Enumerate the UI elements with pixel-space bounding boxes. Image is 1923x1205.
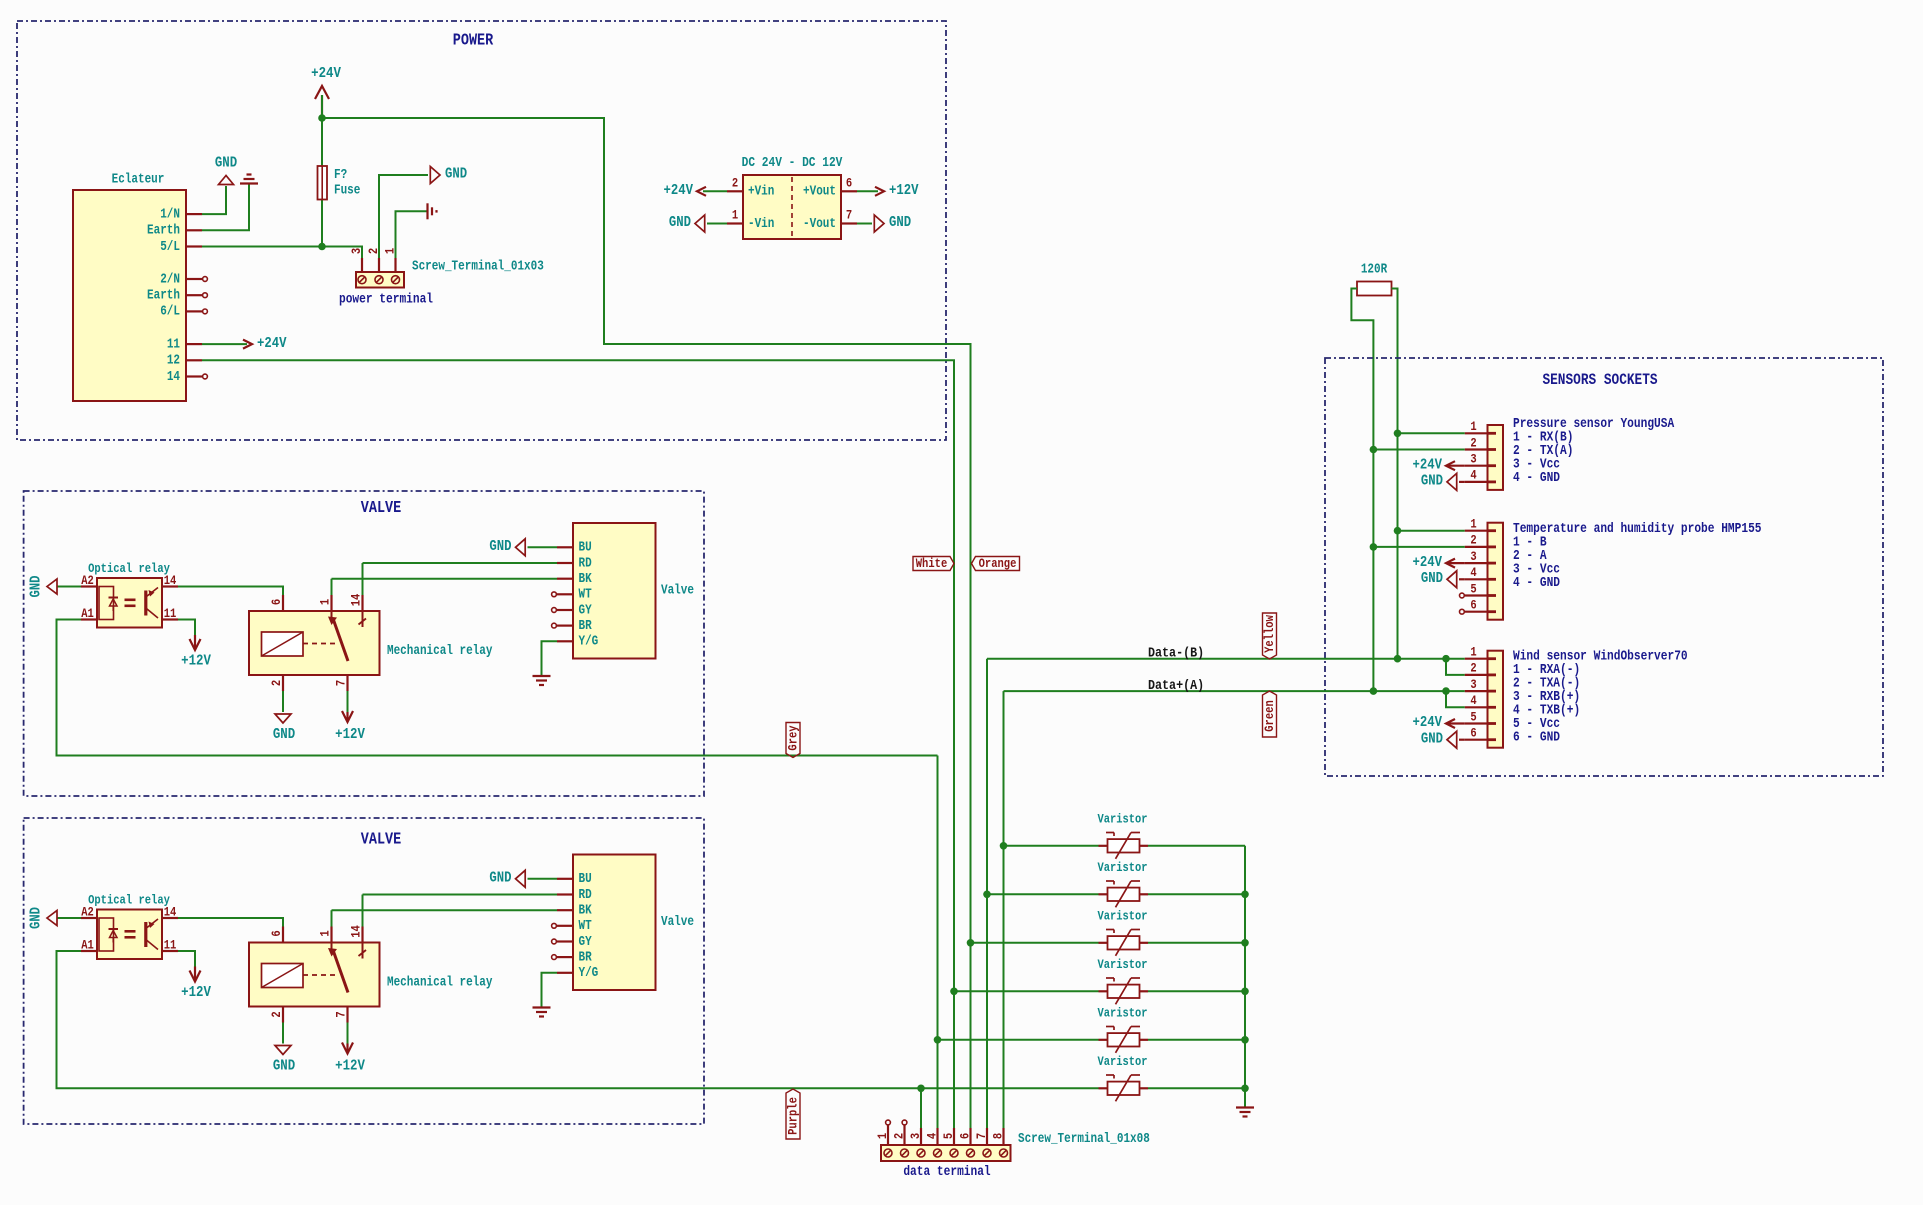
svg-text:6: 6 xyxy=(269,930,284,936)
IC U1 Eclateur xyxy=(73,190,186,401)
flag label Green xyxy=(1263,691,1277,737)
wire relay pin1 to valve BK xyxy=(332,909,558,911)
svg-text:+12V: +12V xyxy=(181,984,211,1001)
svg-text:6 - GND: 6 - GND xyxy=(1513,730,1560,745)
svg-text:+24V: +24V xyxy=(311,65,341,82)
wire varistor 3 right xyxy=(1148,942,1245,944)
screw 2 of data terminal xyxy=(901,1149,909,1157)
GND global label at -Vout xyxy=(857,223,872,225)
junction Purple wire to terminal pin 3 xyxy=(917,1085,925,1093)
svg-text:+24V: +24V xyxy=(1412,715,1442,731)
flag label Yellow xyxy=(1263,613,1277,659)
svg-text:6/L: 6/L xyxy=(160,304,180,319)
svg-text:2: 2 xyxy=(1470,533,1476,548)
svg-text:Earth: Earth xyxy=(147,223,180,238)
svg-text:GND: GND xyxy=(489,871,511,887)
wire line A to HMP pin 2 xyxy=(1373,546,1464,548)
wire Grey drop to terminal pin 4 xyxy=(937,756,939,1148)
VALVE section box xyxy=(24,818,704,1124)
pin 6 stub xyxy=(1465,739,1488,741)
svg-text:White: White xyxy=(916,556,947,571)
opto coupling marks xyxy=(125,598,136,601)
junction varistor 4 left xyxy=(950,988,958,996)
svg-text:+Vout: +Vout xyxy=(803,184,836,199)
unconnected valve pins WT GY BR xyxy=(552,923,557,928)
svg-text:data terminal: data terminal xyxy=(903,1164,990,1179)
valve pin BU xyxy=(557,546,573,548)
pin 4 stub xyxy=(1465,706,1488,708)
relay contact 14 xyxy=(362,611,364,627)
pin 3 stub xyxy=(1465,465,1488,467)
svg-text:GND: GND xyxy=(215,154,237,171)
svg-text:1: 1 xyxy=(1470,419,1476,434)
valve pin RD xyxy=(557,893,573,895)
svg-text:+24V: +24V xyxy=(663,183,693,199)
+24V global label at pin 11 xyxy=(202,343,247,345)
opto phototransistor xyxy=(144,922,147,947)
wire Data+(A) to wind pin 3 xyxy=(1004,690,1465,692)
pin 1 stub xyxy=(1465,530,1488,532)
svg-text:Fuse: Fuse xyxy=(334,182,360,197)
wire relay pin14 to valve RD xyxy=(363,562,558,564)
junction at +24V rail xyxy=(318,114,326,122)
opto coupling marks xyxy=(125,930,136,933)
wire 5/L to power terminal pin 3 xyxy=(202,247,362,259)
VALVE section box xyxy=(24,491,704,796)
wire Data-(B) drop to terminal pin 7 xyxy=(986,659,988,1148)
flag label Orange xyxy=(972,557,1020,571)
wire pin 12 to White drop xyxy=(202,360,954,1147)
relay coil xyxy=(262,632,304,656)
svg-text:+12V: +12V xyxy=(335,726,365,743)
pin 1/N of Eclateur xyxy=(186,213,202,215)
svg-text:2: 2 xyxy=(732,175,738,190)
svg-text:RD: RD xyxy=(579,555,592,570)
pin 4 stub xyxy=(1465,578,1488,580)
connector J? Pressure sensor xyxy=(1488,425,1504,490)
svg-text:14: 14 xyxy=(348,925,363,938)
pin 2 stub xyxy=(1465,546,1488,548)
wire +24V rail to Orange drop xyxy=(322,118,971,1148)
pin 12 of Eclateur xyxy=(186,359,202,361)
svg-text:1: 1 xyxy=(317,930,332,936)
svg-text:2: 2 xyxy=(1470,661,1476,676)
svg-text:4 - GND: 4 - GND xyxy=(1513,470,1560,485)
SENSORS SOCKETS section box xyxy=(1325,358,1883,776)
svg-text:4: 4 xyxy=(1470,565,1476,580)
valve pin BR xyxy=(557,956,573,958)
wire opto14 to relay pin6 xyxy=(178,587,283,596)
relay pin 2 xyxy=(282,675,284,691)
svg-text:6: 6 xyxy=(846,175,852,190)
svg-text:5: 5 xyxy=(1470,581,1476,596)
pin 6/L of Eclateur xyxy=(186,310,202,312)
svg-text:4: 4 xyxy=(1470,693,1476,708)
screw terminal J? data terminal xyxy=(881,1145,1011,1161)
pin 5 stub xyxy=(1465,722,1488,724)
pin Earth of Eclateur xyxy=(186,229,202,231)
power symbol GND below relay xyxy=(275,1046,291,1055)
svg-text:WT: WT xyxy=(579,587,592,602)
svg-text:3: 3 xyxy=(349,248,364,254)
svg-text:8: 8 xyxy=(990,1133,1005,1139)
svg-text:3: 3 xyxy=(1470,677,1476,692)
svg-text:7: 7 xyxy=(974,1133,989,1139)
pin 6 stub xyxy=(1465,611,1488,613)
wire relay pin 7 to +12V xyxy=(347,691,349,712)
svg-text:Grey: Grey xyxy=(785,725,800,750)
+24V global label pressure pin 3 xyxy=(1448,465,1465,467)
svg-text:14: 14 xyxy=(348,594,363,607)
wire opto pin 11 to +12V xyxy=(178,620,195,636)
relay K? Mechanical relay xyxy=(249,611,380,675)
svg-text:Valve: Valve xyxy=(661,582,694,597)
global label GND at valve BU xyxy=(528,546,558,548)
svg-text:A2: A2 xyxy=(81,573,94,588)
opto LED symbol xyxy=(99,918,114,951)
svg-text:GY: GY xyxy=(579,602,593,617)
svg-text:6: 6 xyxy=(957,1133,972,1139)
junction at fuse bottom / 5L xyxy=(318,243,326,251)
svg-text:BU: BU xyxy=(579,540,592,555)
pin 2 stub xyxy=(1465,448,1488,450)
wire 120R left lead to line A xyxy=(1351,289,1373,692)
svg-text:Green: Green xyxy=(1262,700,1277,731)
svg-text:14: 14 xyxy=(164,905,177,920)
valve pin Y/G xyxy=(557,640,573,642)
earth symbol below valve xyxy=(533,675,551,677)
wire opto pin 11 to +12V xyxy=(178,951,195,967)
svg-text:A1: A1 xyxy=(81,938,94,953)
svg-text:VALVE: VALVE xyxy=(361,498,401,518)
relay contact 14 xyxy=(362,943,364,959)
global label GND at opto A2 xyxy=(57,917,81,919)
power symbol GND (triangle) xyxy=(219,176,234,185)
relay dashed link xyxy=(303,974,339,976)
svg-text:BK: BK xyxy=(579,571,593,586)
global label GND near power terminal xyxy=(430,167,440,184)
svg-text:GND: GND xyxy=(273,1057,295,1074)
screw 1 of data terminal xyxy=(884,1149,892,1157)
screw 4 of data terminal xyxy=(934,1149,942,1157)
svg-text:Purple: Purple xyxy=(785,1097,800,1135)
+12V global label at +Vout xyxy=(857,190,878,192)
GND global label HMP pin 4 xyxy=(1459,578,1465,580)
svg-text:7: 7 xyxy=(333,1011,348,1017)
svg-text:1: 1 xyxy=(317,599,332,605)
junction varistor 2 right xyxy=(1241,891,1249,899)
wire power terminal pin 1 to small earth xyxy=(396,211,428,258)
svg-text:3: 3 xyxy=(908,1133,923,1139)
pin 1 stub xyxy=(1465,658,1488,660)
svg-text:VALVE: VALVE xyxy=(361,829,401,849)
svg-text:BK: BK xyxy=(579,903,593,918)
optocoupler Optical relay xyxy=(97,910,162,960)
opto pin A1 xyxy=(81,618,97,620)
GND global label at -Vin xyxy=(707,223,727,225)
valve pin GY xyxy=(557,940,573,942)
opto pin 14 xyxy=(162,917,178,919)
connector J? HMP155 probe xyxy=(1488,523,1504,620)
svg-text:power terminal: power terminal xyxy=(339,291,433,306)
svg-text:2: 2 xyxy=(891,1133,906,1139)
wire +24V rail down through fuse xyxy=(321,95,323,247)
svg-text:-Vout: -Vout xyxy=(803,216,836,231)
relay pin 1 xyxy=(330,927,332,943)
svg-text:Screw_Terminal_01x03: Screw_Terminal_01x03 xyxy=(412,258,544,273)
wire varistor 6 right xyxy=(1148,1087,1245,1089)
relay switch arm xyxy=(331,943,333,952)
wire varistor 5 left xyxy=(938,1039,1099,1041)
svg-text:14: 14 xyxy=(167,369,180,384)
wire line B to pressure pin 1 xyxy=(1398,432,1465,434)
power symbol +24V xyxy=(321,95,323,118)
svg-text:-Vin: -Vin xyxy=(748,216,774,231)
unconnected data terminal pins 1 2 xyxy=(886,1120,891,1125)
wire varistor 4 right xyxy=(1148,990,1245,992)
svg-text:BR: BR xyxy=(579,618,593,633)
relay K? Mechanical relay xyxy=(249,943,380,1007)
pin 4 stub xyxy=(1465,481,1488,483)
svg-text:GND: GND xyxy=(889,215,911,231)
svg-text:GND: GND xyxy=(489,539,511,555)
wire power terminal pin 2 to GND label xyxy=(379,175,428,258)
svg-text:2: 2 xyxy=(269,1011,284,1017)
wire varistor 2 right xyxy=(1148,893,1245,895)
opto pin 11 xyxy=(162,618,178,620)
svg-text:+Vin: +Vin xyxy=(748,184,774,199)
valve pin BK xyxy=(557,909,573,911)
pin 2/N of Eclateur xyxy=(186,278,202,280)
wire Purple drop to terminal pin 3 xyxy=(920,1088,922,1147)
flag label Purple xyxy=(786,1089,800,1139)
relay pin 6 xyxy=(282,595,284,611)
power symbol +12V down xyxy=(194,635,196,648)
svg-text:6: 6 xyxy=(1470,726,1476,741)
flag label Grey xyxy=(786,723,800,758)
svg-text:BU: BU xyxy=(579,871,592,886)
junction varistor 5 left xyxy=(934,1036,942,1044)
svg-text:Varistor: Varistor xyxy=(1098,958,1148,972)
varistor common ground rail xyxy=(1244,846,1246,1108)
svg-text:4 - GND: 4 - GND xyxy=(1513,575,1560,590)
earth symbol below valve xyxy=(533,1006,551,1008)
svg-text:WT: WT xyxy=(579,918,592,933)
wire varistor 4 left xyxy=(954,990,1099,992)
valve pin BU xyxy=(557,878,573,880)
wire wind pin 2 loop xyxy=(1446,659,1465,675)
svg-text:Earth: Earth xyxy=(147,288,180,303)
svg-text:2: 2 xyxy=(269,680,284,686)
svg-text:5: 5 xyxy=(1470,709,1476,724)
svg-text:120R: 120R xyxy=(1361,261,1388,276)
svg-text:GND: GND xyxy=(445,167,467,183)
svg-text:5: 5 xyxy=(941,1133,956,1139)
svg-text:Varistor: Varistor xyxy=(1098,861,1148,875)
svg-text:+12V: +12V xyxy=(889,183,919,199)
svg-text:1: 1 xyxy=(875,1133,890,1139)
svg-text:4: 4 xyxy=(1470,468,1476,483)
svg-text:1/N: 1/N xyxy=(160,206,180,221)
wire valve Y/G to earth xyxy=(542,641,558,676)
screw terminal J? power terminal xyxy=(356,272,404,288)
svg-text:GND: GND xyxy=(29,907,45,929)
wire relay pin 2 to GND xyxy=(282,1023,284,1044)
opto pin 11 xyxy=(162,950,178,952)
screw 1 of power terminal xyxy=(392,276,400,284)
wire varistor 1 left xyxy=(1004,845,1099,847)
svg-text:3: 3 xyxy=(1470,549,1476,564)
svg-text:5/L: 5/L xyxy=(160,239,180,254)
opto pin 14 xyxy=(162,585,178,587)
valve pin GY xyxy=(557,609,573,611)
relay pin 6 xyxy=(282,927,284,943)
wire wind pin 4 loop xyxy=(1446,691,1465,707)
svg-text:Optical relay: Optical relay xyxy=(88,561,170,576)
screw 7 of data terminal xyxy=(983,1149,991,1157)
optocoupler Optical relay xyxy=(97,578,162,628)
wire line A to pressure pin 2 xyxy=(1373,449,1464,451)
svg-text:Mechanical relay: Mechanical relay xyxy=(387,643,493,658)
svg-text:GND: GND xyxy=(273,726,295,743)
junction varistor 1 left xyxy=(1000,842,1008,850)
opto pin A1 xyxy=(81,950,97,952)
svg-text:GND: GND xyxy=(669,215,691,231)
valve component xyxy=(573,855,656,991)
pin 3 stub xyxy=(1465,562,1488,564)
wire opto A1 long run to Purple xyxy=(57,951,1099,1088)
GND global label wind pin 6 xyxy=(1459,739,1465,741)
unconnected valve pins WT GY BR xyxy=(552,592,557,597)
global label GND at valve BU xyxy=(528,878,558,880)
GND global label pressure pin 4 xyxy=(1459,481,1465,483)
svg-text:11: 11 xyxy=(164,938,177,953)
wire relay pin14 to valve RD xyxy=(363,894,558,896)
DC-DC converter PS1 xyxy=(743,175,841,239)
relay pin 1 xyxy=(330,595,332,611)
wire relay pin 2 to GND xyxy=(282,691,284,712)
svg-text:Varistor: Varistor xyxy=(1098,1055,1148,1069)
wire varistor 1 right xyxy=(1148,845,1245,847)
svg-text:GY: GY xyxy=(579,934,593,949)
pin 14 of Eclateur xyxy=(186,375,202,377)
screw 6 of data terminal xyxy=(967,1149,975,1157)
wire relay pin1 to valve BK xyxy=(332,578,558,580)
svg-text:Yellow: Yellow xyxy=(1262,615,1277,653)
junction varistor 6 right xyxy=(1241,1085,1249,1093)
opto pin A2 xyxy=(81,917,97,919)
fuse F? xyxy=(318,166,328,200)
svg-text:+12V: +12V xyxy=(335,1057,365,1074)
screw 2 of power terminal xyxy=(375,276,383,284)
wire Earth pin to earth symbol xyxy=(202,185,249,231)
earth symbol varistor rail xyxy=(1236,1106,1254,1108)
svg-text:Varistor: Varistor xyxy=(1098,813,1148,827)
wire varistor 2 left xyxy=(987,893,1099,895)
pin 5/L of Eclateur xyxy=(186,245,202,247)
wire line B to HMP pin 1 xyxy=(1398,530,1465,532)
svg-text:+12V: +12V xyxy=(181,652,211,669)
valve component xyxy=(573,523,656,659)
junction varistor 3 right xyxy=(1241,939,1249,947)
svg-text:11: 11 xyxy=(164,606,177,621)
svg-text:F?: F? xyxy=(334,167,347,182)
svg-text:2: 2 xyxy=(1470,435,1476,450)
svg-text:RD: RD xyxy=(579,887,592,902)
svg-text:3: 3 xyxy=(1470,452,1476,467)
svg-text:Data+(A): Data+(A) xyxy=(1148,677,1204,693)
svg-text:Y/G: Y/G xyxy=(579,634,599,649)
wire 120R right lead line B xyxy=(1392,289,1398,659)
wire Data+(A) drop to terminal pin 8 xyxy=(1003,691,1005,1147)
svg-text:4: 4 xyxy=(924,1133,939,1139)
svg-text:Temperature and humidity probe: Temperature and humidity probe HMP155 xyxy=(1513,521,1762,536)
POWER section box xyxy=(17,21,946,440)
wire varistor 3 left xyxy=(971,942,1099,944)
svg-text:6: 6 xyxy=(1470,598,1476,613)
wire 1/N to GND symbol xyxy=(202,186,226,214)
power symbol +12V below relay xyxy=(346,712,348,720)
svg-text:Screw_Terminal_01x08: Screw_Terminal_01x08 xyxy=(1018,1131,1150,1146)
junction varistor 4 right xyxy=(1241,988,1249,996)
power symbol GND below relay xyxy=(275,714,291,723)
svg-text:GND: GND xyxy=(1421,731,1443,747)
svg-text:+24V: +24V xyxy=(1412,555,1442,571)
wire relay pin 7 to +12V xyxy=(347,1023,349,1044)
power symbol +12V down xyxy=(194,967,196,980)
svg-text:A1: A1 xyxy=(81,606,94,621)
screw 3 of data terminal xyxy=(917,1149,925,1157)
svg-text:1: 1 xyxy=(732,208,738,223)
valve pin WT xyxy=(557,593,573,595)
svg-text:6: 6 xyxy=(269,599,284,605)
wire Data-(B) to wind pin 1 xyxy=(987,658,1465,660)
svg-text:A2: A2 xyxy=(81,905,94,920)
wire opto14 to relay pin6 xyxy=(178,918,283,927)
valve pin BK xyxy=(557,578,573,580)
svg-text:Varistor: Varistor xyxy=(1098,1007,1148,1021)
svg-text:Eclateur: Eclateur xyxy=(112,171,165,186)
valve pin BR xyxy=(557,624,573,626)
svg-text:Mechanical relay: Mechanical relay xyxy=(387,974,493,989)
relay pin 7 xyxy=(346,1007,348,1023)
junction varistor 2 left xyxy=(983,891,991,899)
svg-text:14: 14 xyxy=(164,573,177,588)
screw 5 of data terminal xyxy=(950,1149,958,1157)
svg-text:7: 7 xyxy=(846,208,852,223)
svg-text:SENSORS SOCKETS: SENSORS SOCKETS xyxy=(1542,372,1658,389)
power symbol +12V below relay xyxy=(346,1044,348,1052)
pin 11 of Eclateur xyxy=(186,343,202,345)
svg-text:DC 24V - DC 12V: DC 24V - DC 12V xyxy=(742,155,843,170)
pin 1 stub xyxy=(1465,432,1488,434)
relay switch arm xyxy=(331,611,333,620)
opto pin A2 xyxy=(81,585,97,587)
resistor 120R xyxy=(1357,282,1392,296)
svg-text:11: 11 xyxy=(167,336,180,351)
valve pin WT xyxy=(557,925,573,927)
screw 3 of power terminal xyxy=(358,276,366,284)
svg-text:Orange: Orange xyxy=(979,556,1017,571)
+24V global label HMP pin 3 xyxy=(1448,562,1465,564)
svg-text:+24V: +24V xyxy=(257,336,287,352)
opto LED symbol xyxy=(99,587,114,620)
flag label White xyxy=(913,557,954,571)
+24V global label at +Vin xyxy=(703,190,727,192)
junction varistor 5 right xyxy=(1241,1036,1249,1044)
svg-text:7: 7 xyxy=(333,680,348,686)
svg-text:1: 1 xyxy=(1470,645,1476,660)
